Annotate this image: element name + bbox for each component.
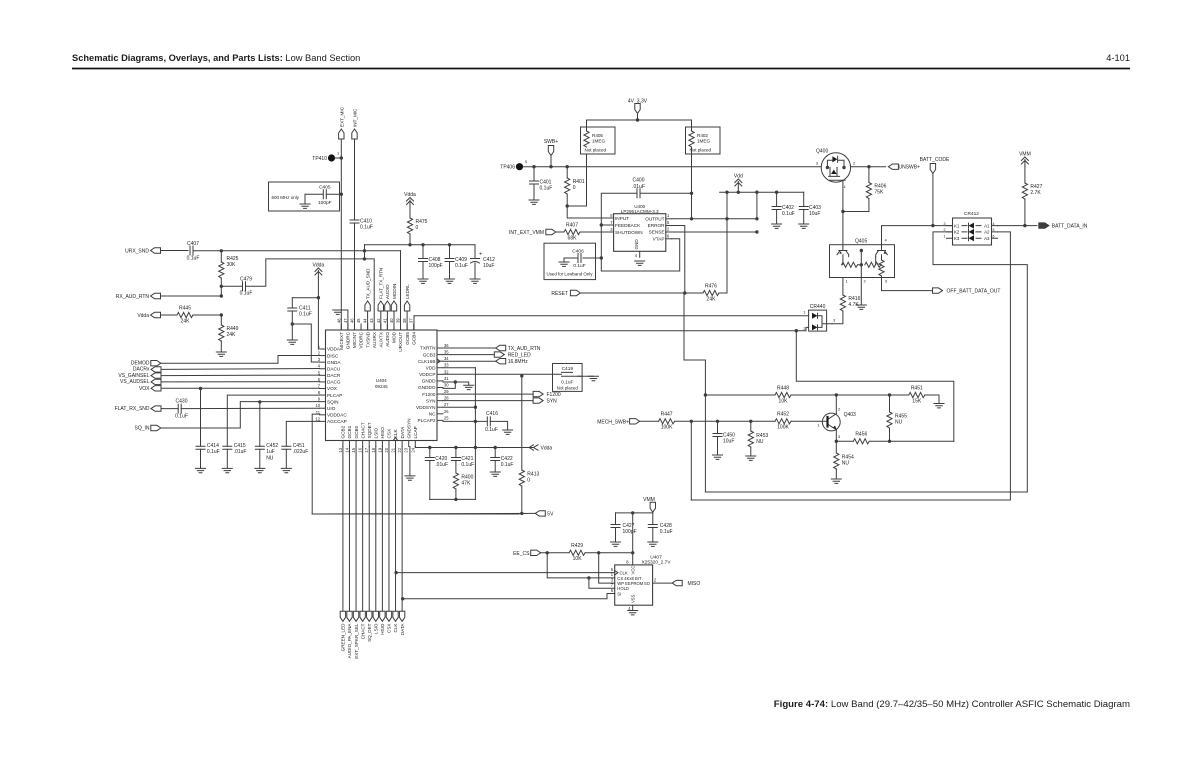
wire Vdd rail xyxy=(720,191,804,193)
junction xyxy=(841,210,844,213)
wire INT_MIC to C410 xyxy=(354,139,356,220)
capacitor C411 xyxy=(291,298,293,308)
svg-text:1: 1 xyxy=(944,234,946,238)
box 600 MHz only xyxy=(269,182,340,211)
svg-text:MICINT: MICINT xyxy=(352,332,357,348)
wire Q403 emitter down xyxy=(835,430,837,441)
junction C421 xyxy=(454,446,457,449)
flag DEMOD xyxy=(151,361,161,366)
flag MISO xyxy=(672,580,682,585)
junction C405 xyxy=(340,193,343,196)
Q405 left resistor xyxy=(842,262,858,267)
wire to C430 xyxy=(161,408,178,410)
capacitor C422 xyxy=(491,458,500,461)
flag VMM xyxy=(650,502,655,512)
svg-text:0.1uF: 0.1uF xyxy=(207,449,220,455)
flag AUDIO_PA_ENA xyxy=(347,611,352,621)
flag INT_EXT_VMM xyxy=(546,229,556,234)
wire Q400 pin1 down xyxy=(842,180,844,211)
svg-text:AUXRX: AUXRX xyxy=(372,331,377,348)
svg-text:BATT_DATA_IN: BATT_DATA_IN xyxy=(1052,224,1088,230)
svg-text:24K: 24K xyxy=(227,332,237,338)
Q405 left transistor xyxy=(837,247,849,257)
U400 pin 3 SHUTDOWN xyxy=(608,231,614,233)
U404 pin 48 (MICEXT) xyxy=(340,324,342,330)
U404 pin 18 (LSIO) xyxy=(375,441,377,447)
svg-text:0.1uF: 0.1uF xyxy=(455,263,468,269)
clock wedge pin 21 xyxy=(393,437,397,440)
svg-text:DISC: DISC xyxy=(327,353,339,358)
wire VMM rail xyxy=(616,512,653,514)
svg-text:14: 14 xyxy=(344,447,349,452)
svg-text:C406: C406 xyxy=(572,249,584,255)
svg-text:VOX: VOX xyxy=(327,386,338,391)
box Used for Lowband Only xyxy=(544,243,596,279)
wire C400 to R402 xyxy=(640,192,692,194)
svg-text:VCC: VCC xyxy=(631,566,636,575)
wire R448 row right xyxy=(791,394,909,396)
wire K2 loop down to upper bus xyxy=(705,232,1027,492)
U404 pin 15 (GCB0) xyxy=(355,441,357,447)
svg-text:15: 15 xyxy=(351,447,356,452)
CR412 row K3/A3 xyxy=(947,237,998,239)
U404 pin 34 (CLK16B) xyxy=(437,360,443,362)
ground below R453 xyxy=(746,456,756,460)
wire C405 to EXT_MIC line xyxy=(326,193,341,195)
wire F1200 xyxy=(443,393,534,395)
svg-text:15K: 15K xyxy=(912,399,922,405)
U404 pin 42 (AUXTX) xyxy=(380,324,382,330)
ground below R454 xyxy=(831,479,841,483)
capacitor C414 xyxy=(196,446,205,449)
svg-text:VDD: VDD xyxy=(426,365,437,370)
wire CLK16B xyxy=(443,360,496,362)
U404 pin 13 (GCB2) xyxy=(342,441,344,447)
svg-text:SHUTDOWN: SHUTDOWN xyxy=(615,230,643,235)
U404 pin 40 (MOD) xyxy=(393,324,395,330)
wire Vdda to VDDA pin xyxy=(318,277,325,349)
svg-text:0.1uF: 0.1uF xyxy=(461,462,474,468)
wire SENSE right xyxy=(672,231,757,233)
svg-text:10: 10 xyxy=(315,403,320,408)
U400 pin 6 VTAP xyxy=(666,238,672,240)
wire LCAP xyxy=(414,447,416,448)
svg-text:Q405: Q405 xyxy=(855,239,867,245)
svg-text:10uF: 10uF xyxy=(723,439,734,445)
svg-text:TX_AUD_SND: TX_AUD_SND xyxy=(365,268,370,299)
wire to C403 xyxy=(803,192,805,206)
Q405 internal resistors xyxy=(842,255,844,265)
svg-text:28: 28 xyxy=(444,396,449,401)
U404 pin 39 (URXOUT) xyxy=(400,324,402,330)
supply VMM at R427 xyxy=(1021,157,1028,166)
svg-text:C430: C430 xyxy=(176,399,188,405)
svg-text:39: 39 xyxy=(396,318,401,323)
U404 pin 19 (HSIO) xyxy=(381,441,383,447)
wire R448 row left xyxy=(705,394,775,396)
junction GNDD xyxy=(454,380,457,383)
wire Vdda to R475 xyxy=(409,207,411,219)
junction VCC drop xyxy=(631,511,634,514)
flag FLAT_TX_RTN xyxy=(378,301,383,311)
wire TXRTN xyxy=(443,347,496,349)
wire AGCCAP to C451 xyxy=(286,421,319,446)
svg-text:GREEN_LED: GREEN_LED xyxy=(341,623,346,652)
ASFIC IC U404 xyxy=(326,330,438,441)
resistor R451 xyxy=(909,392,925,397)
svg-text:0.1uF: 0.1uF xyxy=(240,291,253,297)
svg-text:3: 3 xyxy=(944,222,946,226)
svg-text:URXOUT: URXOUT xyxy=(398,332,403,352)
wire Vdda rail xyxy=(415,447,533,448)
flag TX_AUD_SND xyxy=(365,301,370,311)
junction Vdda riser/line xyxy=(363,257,366,260)
svg-text:0: 0 xyxy=(416,225,419,231)
svg-text:VMM: VMM xyxy=(1019,152,1031,158)
svg-text:R447: R447 xyxy=(661,412,673,418)
junction C411/Vdda stem xyxy=(317,296,320,299)
transistor block Q405 xyxy=(830,245,895,278)
flag HSIO xyxy=(380,611,385,621)
flag 16.8MHz xyxy=(496,359,506,364)
svg-text:NU: NU xyxy=(842,461,850,467)
wire pin 21 down xyxy=(395,447,397,612)
ground below U407 xyxy=(628,611,638,615)
junction 4V_3.3V xyxy=(636,118,639,121)
svg-text:Vdda: Vdda xyxy=(137,313,149,319)
svg-text:HSIO: HSIO xyxy=(380,623,385,635)
wire to WP pin xyxy=(599,553,615,583)
wire SQIN to C452 xyxy=(259,402,261,446)
junction C420 xyxy=(428,446,431,449)
svg-text:INPUT: INPUT xyxy=(615,216,629,221)
svg-text:Figure 4-74: Low Band (29.7–42: Figure 4-74: Low Band (29.7–42/35–50 MHz… xyxy=(774,699,1130,710)
svg-text:BATT_CODE: BATT_CODE xyxy=(920,157,950,163)
svg-text:48: 48 xyxy=(336,318,341,323)
svg-text:NU: NU xyxy=(266,455,274,461)
svg-text:20: 20 xyxy=(384,447,389,452)
svg-text:C479: C479 xyxy=(240,277,252,283)
wire SQ_IN to SQIN xyxy=(161,402,320,428)
svg-text:K1: K1 xyxy=(954,223,960,228)
flag AUDIO xyxy=(385,301,390,311)
U404 pin 45 (VDDRC) xyxy=(360,324,362,330)
flag CSX xyxy=(386,611,391,621)
svg-text:43: 43 xyxy=(369,318,374,323)
svg-text:FLAT_TX_RTN: FLAT_TX_RTN xyxy=(379,268,384,299)
header rule xyxy=(72,68,1130,70)
junction VDDCP rail xyxy=(520,374,523,377)
wire DACRx to DACU xyxy=(161,368,320,371)
svg-text:FLAT_RX_SND: FLAT_RX_SND xyxy=(115,406,150,412)
svg-text:Q400: Q400 xyxy=(816,149,828,155)
junction R400 bottom xyxy=(454,498,457,501)
svg-text:4: 4 xyxy=(993,222,995,226)
junction R453 xyxy=(749,420,752,423)
resistor R400 xyxy=(453,473,458,489)
svg-text:.01uF: .01uF xyxy=(435,462,448,468)
svg-text:GCB1: GCB1 xyxy=(347,425,352,438)
junction C479 xyxy=(220,285,223,288)
wire R456 right xyxy=(869,440,954,442)
svg-text:NC: NC xyxy=(429,412,436,417)
flag F1200 xyxy=(533,391,543,396)
wire VTAP loop xyxy=(601,239,679,271)
svg-text:600 MHz only: 600 MHz only xyxy=(272,195,300,200)
wire C479 Vdda line to AUXRX xyxy=(246,259,375,330)
U404 pin 17 (SQDET) xyxy=(368,441,370,447)
svg-text:F1200: F1200 xyxy=(422,392,436,397)
svg-text:0.1uF: 0.1uF xyxy=(485,427,498,433)
wire Q403 collector up xyxy=(835,395,837,414)
svg-text:MISO: MISO xyxy=(688,581,701,587)
svg-text:A3: A3 xyxy=(984,236,990,241)
svg-text:6: 6 xyxy=(993,234,995,238)
U404 pin 9 (SQIN) xyxy=(320,401,326,403)
svg-text:DATA: DATA xyxy=(400,426,405,439)
U404 pin 41 (AUDIO) xyxy=(386,324,388,330)
flag OFF_BATT_DATA_OUT xyxy=(933,288,943,293)
junction A3 bus drop xyxy=(690,420,693,423)
junction R455 bottom xyxy=(888,440,891,443)
svg-text:R407: R407 xyxy=(566,223,578,229)
svg-text:16.8MHz: 16.8MHz xyxy=(508,359,529,365)
svg-text:47K: 47K xyxy=(461,481,471,487)
wire ERROR down xyxy=(672,226,685,294)
svg-text:DACRx: DACRx xyxy=(133,367,150,373)
junction R475 bus xyxy=(408,243,411,246)
svg-text:21: 21 xyxy=(391,447,396,452)
resistor R448 xyxy=(775,392,791,397)
box R402 not placed xyxy=(686,127,721,154)
CR412 row K1/A1 xyxy=(947,225,998,227)
wire GNDD xyxy=(443,382,469,385)
wire VOX to VOX pin xyxy=(161,387,320,389)
supply Vdda to VDDA xyxy=(315,268,322,277)
svg-text:SYN: SYN xyxy=(547,399,558,405)
svg-text:Schematic Diagrams, Overlays,: Schematic Diagrams, Overlays, and Parts … xyxy=(72,53,360,63)
svg-text:VS_AUDSEL: VS_AUDSEL xyxy=(120,379,150,385)
wire pin 19 down xyxy=(381,447,383,612)
svg-text:0.1uF: 0.1uF xyxy=(187,256,200,262)
svg-text:0.1uF: 0.1uF xyxy=(299,312,312,318)
capacitor C409 xyxy=(445,259,454,262)
svg-text:0.1uF: 0.1uF xyxy=(782,211,795,217)
svg-text:10uF: 10uF xyxy=(809,211,820,217)
svg-text:VOX: VOX xyxy=(139,386,150,392)
svg-text:CR412: CR412 xyxy=(964,211,979,217)
wire down to upper bus xyxy=(704,395,706,492)
capacitor C410 xyxy=(350,220,359,223)
wire PLCAP to C415 xyxy=(227,395,319,446)
flag SQ_DET xyxy=(367,611,372,621)
svg-text:LSIO: LSIO xyxy=(374,427,379,438)
junction R425 top xyxy=(220,249,223,252)
capacitor C400 xyxy=(637,189,640,198)
flag EXT_MIC xyxy=(339,129,344,139)
svg-text:CR440: CR440 xyxy=(810,304,826,310)
svg-text:R429: R429 xyxy=(571,543,583,549)
svg-text:DACU: DACU xyxy=(327,366,341,371)
svg-text:45: 45 xyxy=(356,318,361,323)
U404 pin 43 (AUXRX) xyxy=(373,324,375,330)
svg-text:LCAP: LCAP xyxy=(413,426,418,438)
junction DATA branch xyxy=(401,597,404,600)
svg-text:24K: 24K xyxy=(181,319,191,325)
svg-text:AUDIO: AUDIO xyxy=(385,284,390,299)
junction C401 xyxy=(532,165,535,168)
wire to R454 xyxy=(835,441,837,453)
CR440 diode 1 xyxy=(812,313,818,319)
svg-text:42: 42 xyxy=(376,318,381,323)
svg-text:100K: 100K xyxy=(777,425,789,431)
svg-text:MECH_SWB+: MECH_SWB+ xyxy=(597,419,629,425)
flag VS_AUDSEL xyxy=(151,379,161,384)
ground after R451 xyxy=(934,404,944,408)
junction sense xyxy=(755,230,758,233)
svg-text:2.7K: 2.7K xyxy=(1030,190,1041,196)
U400 pin 5 ERROR xyxy=(666,225,672,227)
svg-text:4.7K: 4.7K xyxy=(848,302,859,308)
svg-text:40: 40 xyxy=(389,318,394,323)
CR412 diode K3-A3 xyxy=(969,235,975,241)
svg-text:CSX: CSX xyxy=(387,624,392,633)
svg-text:C405: C405 xyxy=(319,185,331,191)
junction C452 xyxy=(258,400,261,403)
svg-text:VS_GAINSEL: VS_GAINSEL xyxy=(118,373,149,379)
svg-text:LSIO: LSIO xyxy=(374,623,379,634)
wire A1 to BATT_DATA_IN xyxy=(998,225,1037,227)
resistor R445 xyxy=(177,312,193,317)
wire loop to CR440 line xyxy=(796,331,954,442)
resistor R447 xyxy=(659,419,675,424)
svg-text:SQ_IN: SQ_IN xyxy=(134,426,149,432)
svg-text:10K: 10K xyxy=(779,399,789,405)
wire GNDRC to ground xyxy=(338,310,348,330)
svg-text:Not placed: Not placed xyxy=(585,148,607,153)
U404 pin 21 (CLK) xyxy=(395,441,397,447)
wire to R453 xyxy=(750,421,752,431)
svg-text:A2: A2 xyxy=(984,230,990,235)
diode pack CR440 xyxy=(809,310,827,331)
svg-text:SO: SO xyxy=(644,581,651,586)
svg-text:SQIN: SQIN xyxy=(327,399,338,404)
wire pin 14 down xyxy=(348,447,350,612)
svg-text:1MEG: 1MEG xyxy=(592,139,605,144)
svg-text:TX_AUD_RTN: TX_AUD_RTN xyxy=(508,346,541,352)
U404 pin 27 (VDDSYN) xyxy=(437,406,443,408)
wire C400 to feedback node xyxy=(583,193,637,258)
svg-text:0.1uF: 0.1uF xyxy=(175,413,188,419)
wire R445 to node xyxy=(193,314,221,316)
junction OUTPUT node xyxy=(690,217,693,220)
svg-text:34: 34 xyxy=(444,356,449,361)
wire to CS pin xyxy=(547,553,615,578)
svg-text:AGCCAP: AGCCAP xyxy=(327,419,347,424)
junction C422 xyxy=(494,446,497,449)
wire VDDCP drop to R413 xyxy=(521,376,523,470)
svg-text:.01uF: .01uF xyxy=(632,184,645,190)
svg-text:24: 24 xyxy=(410,447,415,452)
svg-text:F1200: F1200 xyxy=(547,392,561,398)
svg-text:NU: NU xyxy=(895,420,903,426)
svg-text:0.1uF: 0.1uF xyxy=(573,263,585,269)
wire VS_AUDSEL to DACG xyxy=(161,381,320,383)
flag UNSWB+ xyxy=(888,164,898,169)
svg-text:GNDRC: GNDRC xyxy=(346,331,351,349)
flag VOX xyxy=(151,386,161,391)
wire riser to cap loop xyxy=(474,421,476,500)
wire Vdda to R445 xyxy=(161,314,178,316)
wire VDD to riser xyxy=(443,367,475,369)
ground below C414 xyxy=(196,468,206,472)
U404 pin 46 (MICINT) xyxy=(353,324,355,330)
CR412 diode K1-A1 xyxy=(969,223,975,229)
capacitor C421 xyxy=(451,458,460,461)
svg-text:GCB3: GCB3 xyxy=(423,352,436,357)
ground below Q405 xyxy=(856,305,866,309)
svg-text:36: 36 xyxy=(444,343,449,348)
wire VDDCP to C419 xyxy=(443,373,553,375)
ground at GNDD xyxy=(464,385,474,389)
svg-text:37: 37 xyxy=(409,318,414,323)
svg-text:AUDIO_PA_ENA: AUDIO_PA_ENA xyxy=(347,623,352,659)
svg-text:17: 17 xyxy=(364,447,369,452)
junction C414 xyxy=(199,387,202,390)
svg-text:13: 13 xyxy=(338,447,343,452)
wire C419 to ground xyxy=(578,375,594,377)
flag SWB+ xyxy=(548,146,553,156)
svg-text:PLCAP: PLCAP xyxy=(327,393,342,398)
svg-text:22: 22 xyxy=(397,447,402,452)
svg-text:R448: R448 xyxy=(777,386,789,392)
junction HOLD drop xyxy=(587,576,590,579)
wire R452 to Q403 base xyxy=(791,420,822,422)
resistor R476 xyxy=(703,290,719,295)
svg-text:EXT_MIC: EXT_MIC xyxy=(340,106,345,127)
svg-text:DATA: DATA xyxy=(400,623,405,636)
ground below C402 xyxy=(772,224,782,228)
svg-text:10uF: 10uF xyxy=(483,263,494,269)
wire to R455 xyxy=(889,395,891,412)
supply Vdd xyxy=(735,179,742,188)
svg-text:SQDET: SQDET xyxy=(367,422,372,438)
junction CR440 pin2 drop xyxy=(795,329,798,332)
svg-text:X25320_2.7V: X25320_2.7V xyxy=(641,560,671,566)
wire GCB3 xyxy=(443,354,495,356)
wire VCC down xyxy=(632,513,634,565)
svg-text:ERROR: ERROR xyxy=(648,223,666,228)
capacitor C405 xyxy=(323,190,326,199)
capacitor C430 xyxy=(178,404,181,413)
svg-text:09245: 09245 xyxy=(375,384,388,389)
wire C416 to ground xyxy=(490,421,507,430)
flag 5V xyxy=(535,511,545,516)
U404 pin 33 (VDD) xyxy=(437,367,443,369)
svg-text:GNDA: GNDA xyxy=(327,360,341,365)
flag EXT_SPKR_SEL xyxy=(353,611,358,621)
ground below C452 xyxy=(255,468,265,472)
svg-text:INT_MIC: INT_MIC xyxy=(353,108,358,127)
wire TP410 xyxy=(335,157,341,159)
svg-text:SYN: SYN xyxy=(426,398,436,403)
svg-text:TXRTN: TXRTN xyxy=(420,346,436,351)
flag RESET xyxy=(570,290,580,295)
capacitor C416 xyxy=(487,417,490,426)
junction C409 xyxy=(448,243,451,246)
svg-text:SWB+: SWB+ xyxy=(544,139,558,145)
ground below GNDSYN xyxy=(405,476,415,480)
